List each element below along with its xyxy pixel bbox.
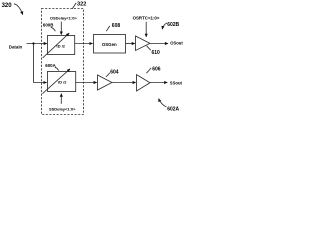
svg-text:OSout: OSout [170,41,183,46]
svg-text:602A: 602A [167,106,179,112]
label OSGen [102,42,117,47]
label 322 [77,2,86,8]
leader for 600B [51,27,56,31]
leader for 602A [159,99,167,107]
svg-text:DataIn: DataIn [9,44,23,49]
adjust arrow of 600B [43,33,70,58]
svg-text:610: 610 [152,50,161,56]
svg-text:OSGen: OSGen [102,42,117,47]
svg-text:608: 608 [112,23,121,29]
wire 610 to OSout [150,43,168,45]
leader for 320 [14,4,23,15]
label 610 [152,50,161,56]
wire DataIn to 600B [27,43,47,45]
node junction on DataIn wire [32,42,34,44]
label 600A [45,63,56,68]
svg-text:602B: 602B [167,22,179,28]
label OSRTC<1:0> [133,16,160,21]
leader for 610 [147,46,151,50]
label 320 [2,3,13,9]
label 602A [167,106,179,112]
label DataIn [9,44,23,49]
svg-text:604: 604 [110,69,119,75]
adjust arrow of 600A [42,69,70,94]
delay box 600B [48,36,75,55]
label 608 [112,23,121,29]
svg-text:OSRTC<1:0>: OSRTC<1:0> [133,16,160,21]
leader for 606 [146,68,151,73]
value label in 600B [56,44,66,49]
wire branch down to 600A [34,44,47,83]
wire 606 to SSout [150,82,167,84]
label OSout [170,41,183,46]
dashed block 322 [42,9,84,115]
wire OSDelay control into 600B [60,22,62,35]
buffer 604 [98,75,112,90]
label 602B [167,22,179,28]
svg-text:SSout: SSout [170,81,183,86]
svg-text:τD /2: τD /2 [56,44,66,49]
leader for 608 [106,26,110,31]
buffer 606 [137,75,151,91]
value label in 600A [58,80,68,85]
svg-text:606: 606 [152,67,161,73]
label OSDelay<1:0> [50,15,78,20]
leader for 322 [72,3,76,9]
wire OSGen to driver 610 [126,43,135,45]
label SSout [170,81,183,86]
wire SSDelay control into 600A [60,94,62,104]
wire 600A to buffer 604 [76,82,97,84]
label SSDelay<1:0> [49,106,76,111]
svg-text:OSDelay<1:0>: OSDelay<1:0> [50,15,78,20]
svg-text:600B: 600B [43,23,54,28]
label 606 [152,67,161,73]
driver buffer 610 [136,36,150,51]
wire 604 to buffer 606 [112,82,136,84]
wire OSRTC control into 610 [145,22,147,37]
one-shot generator box 608 [94,35,126,54]
leader for 600A [55,67,59,70]
wire 600B to OSGen [75,43,93,45]
leader for 604 [106,73,110,77]
svg-text:τD /2: τD /2 [58,80,68,85]
svg-text:SSDelay<1:0>: SSDelay<1:0> [49,106,76,111]
label 600B [43,23,54,28]
svg-text:320: 320 [2,3,13,9]
delay box 600A [48,72,76,92]
label 604 [110,69,119,75]
svg-text:322: 322 [77,2,86,8]
leader for 602B [162,23,167,29]
